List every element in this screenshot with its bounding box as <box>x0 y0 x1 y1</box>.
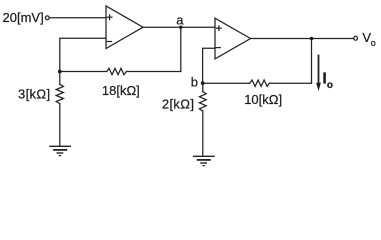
svg-text:2[kΩ]: 2[kΩ] <box>162 97 194 112</box>
svg-text:b: b <box>191 74 198 89</box>
svg-text:18[kΩ]: 18[kΩ] <box>102 83 140 98</box>
svg-text:20[mV]: 20[mV] <box>3 10 44 25</box>
svg-text:o: o <box>371 38 376 48</box>
svg-text:o: o <box>327 80 333 91</box>
svg-text:3[kΩ]: 3[kΩ] <box>18 86 50 101</box>
svg-text:a: a <box>176 12 184 27</box>
svg-text:10[kΩ]: 10[kΩ] <box>244 92 282 107</box>
